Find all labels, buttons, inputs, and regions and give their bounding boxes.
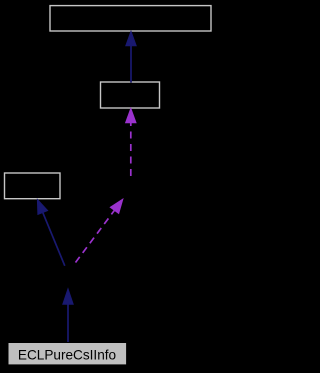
svg-text:ECLPureCsIInfo: ECLPureCsIInfo [18, 348, 116, 363]
